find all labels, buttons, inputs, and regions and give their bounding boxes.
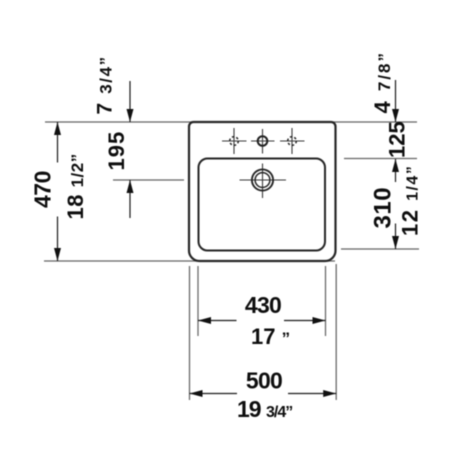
svg-text:500: 500 xyxy=(246,368,282,394)
svg-text:7 3/4”: 7 3/4” xyxy=(94,55,117,114)
svg-text:310: 310 xyxy=(370,187,397,229)
svg-text:470: 470 xyxy=(30,171,56,208)
svg-text:125: 125 xyxy=(385,121,410,158)
svg-text:430: 430 xyxy=(245,292,281,318)
svg-text:195: 195 xyxy=(104,131,129,171)
